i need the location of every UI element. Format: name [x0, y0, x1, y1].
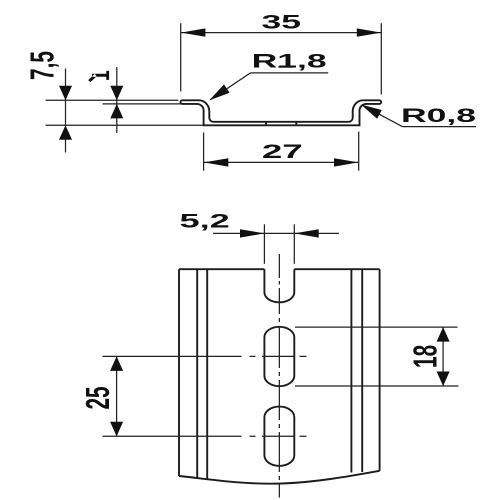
svg-text:7,5: 7,5	[24, 51, 61, 80]
svg-text:25: 25	[79, 386, 116, 409]
svg-text:R1,8: R1,8	[252, 51, 327, 73]
svg-text:27: 27	[262, 141, 303, 163]
svg-text:18: 18	[406, 345, 443, 368]
svg-text:R0,8: R0,8	[401, 105, 476, 127]
svg-text:35: 35	[261, 12, 301, 34]
svg-text:5,2: 5,2	[180, 211, 230, 232]
